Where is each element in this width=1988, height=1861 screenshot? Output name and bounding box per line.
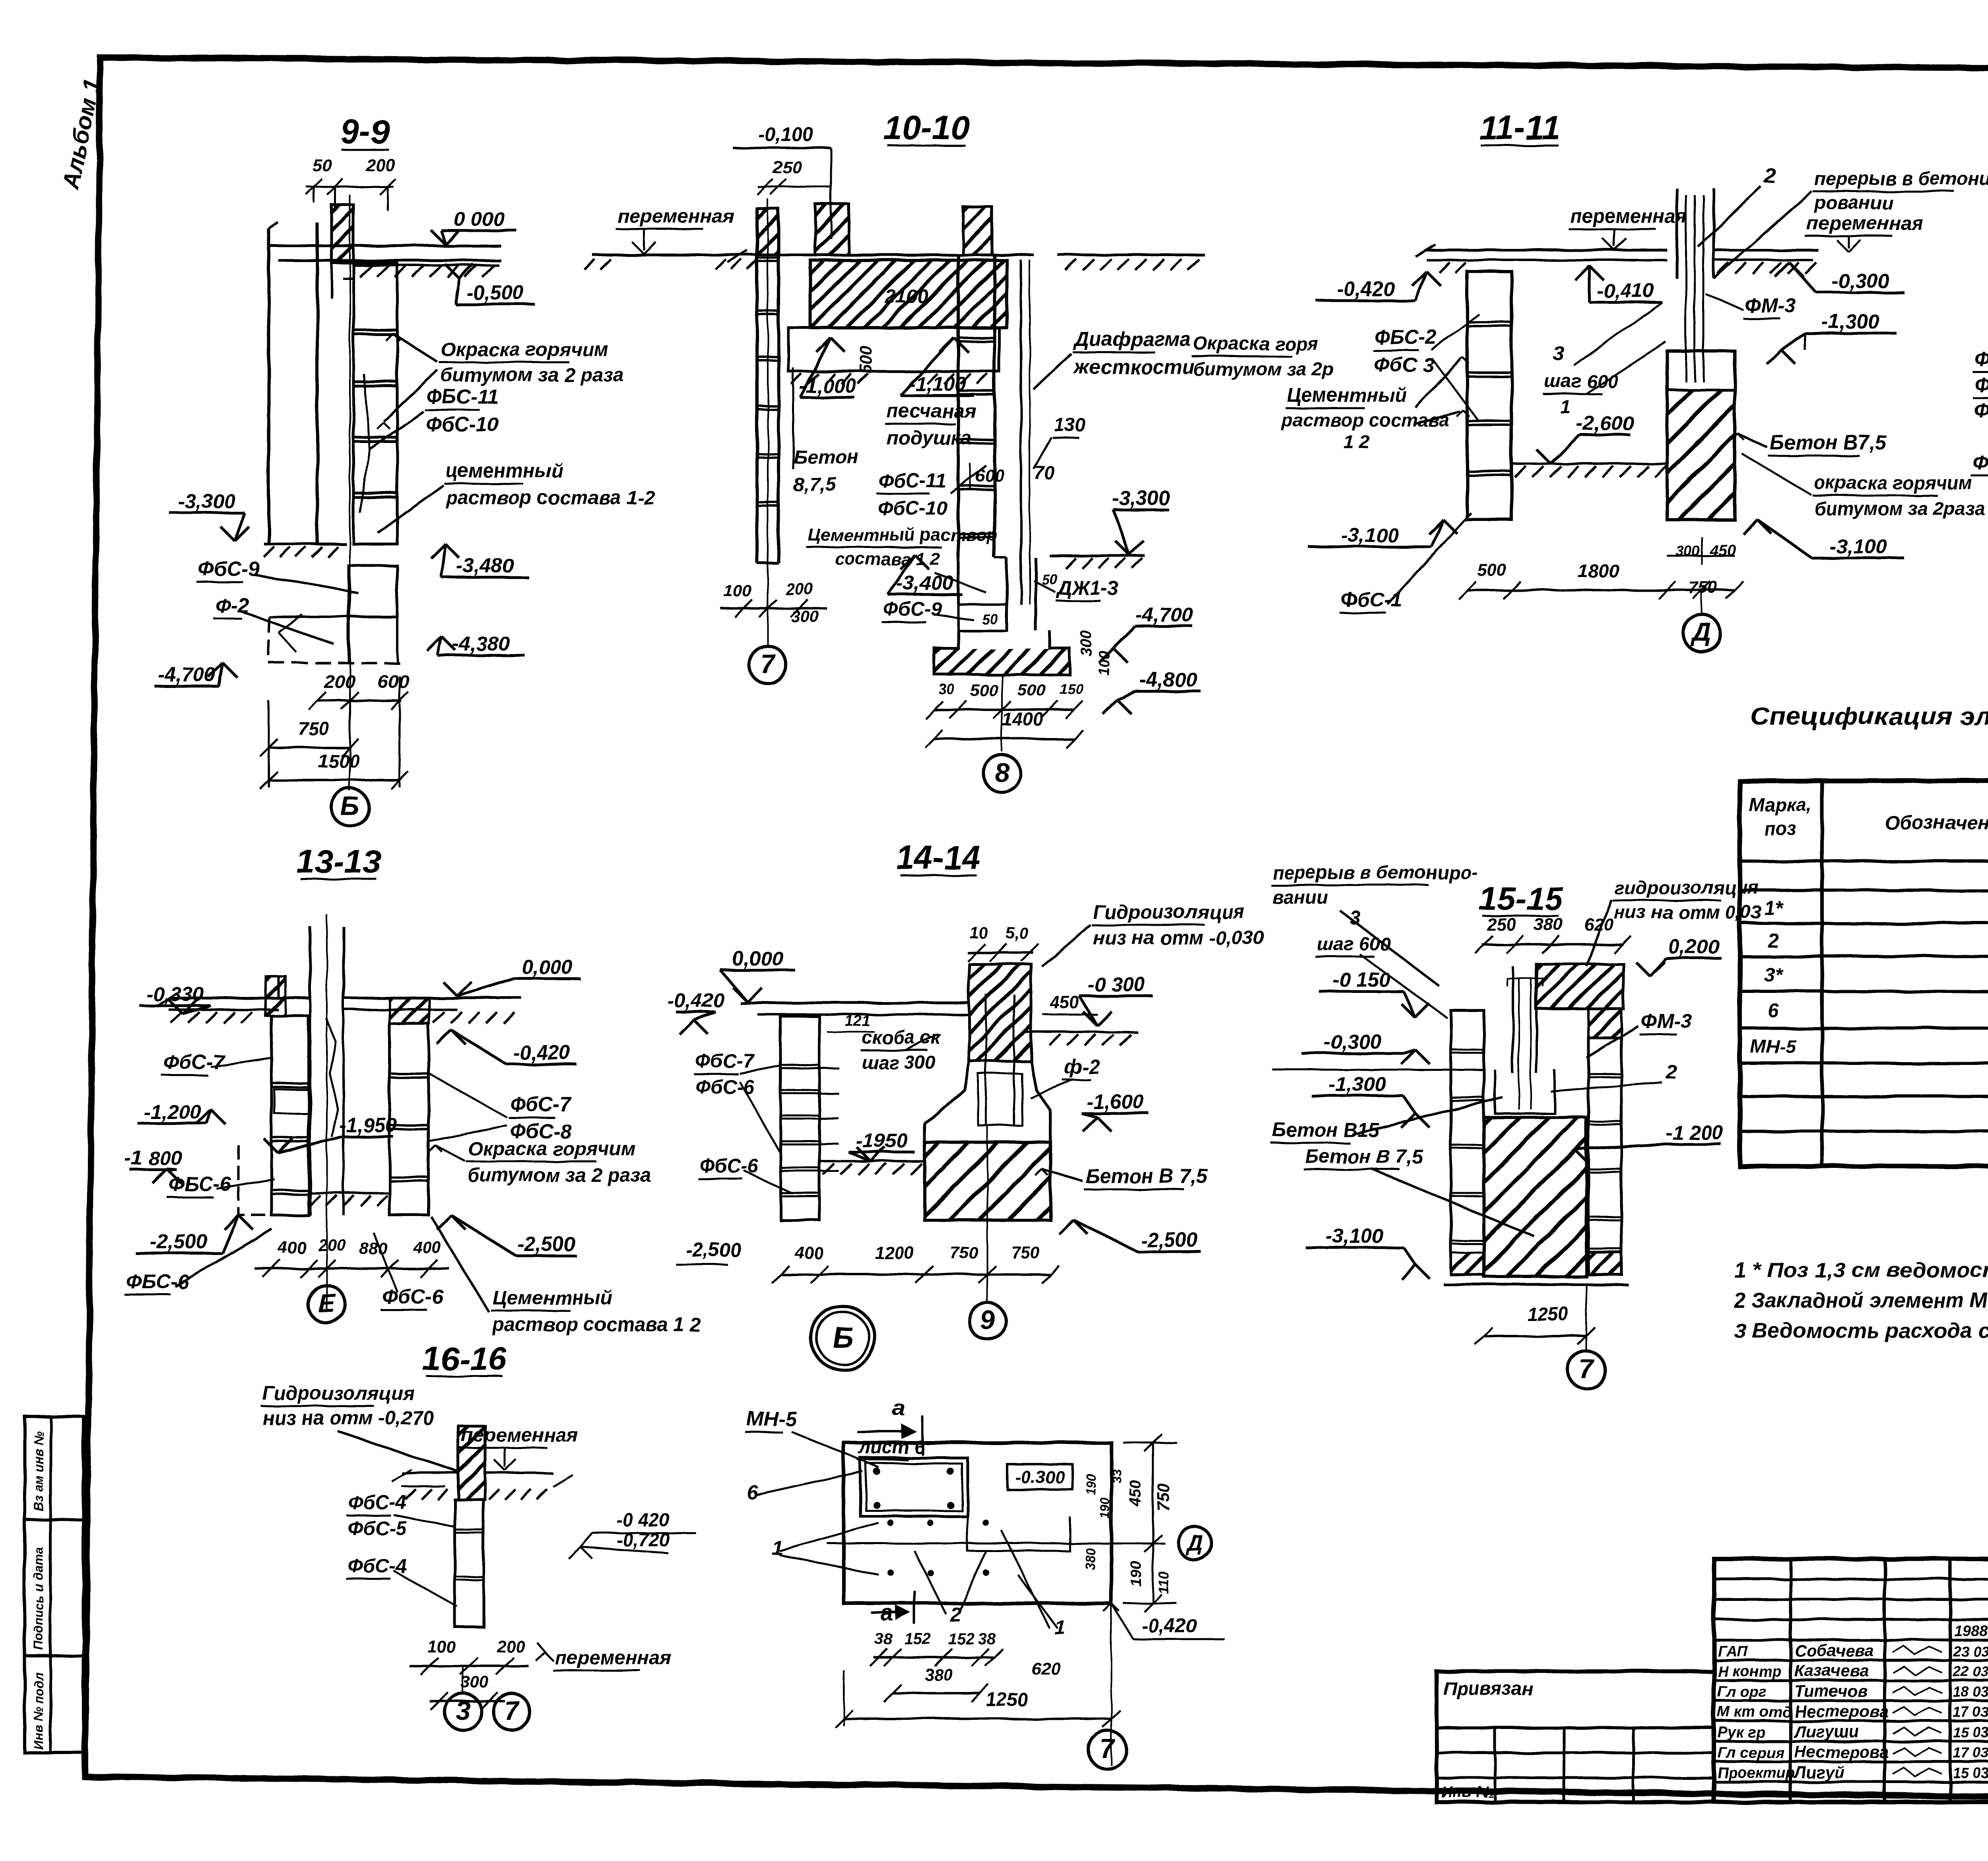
svg-text:-0,420: -0,420 [1142,1615,1197,1637]
svg-text:-0,410: -0,410 [1597,279,1654,302]
svg-text:1 * Поз 1,3 см ведомость де: 1 * Поз 1,3 см ведомость деталей на лист… [1734,1259,1988,1282]
svg-text:Цементный: Цементный [493,1287,612,1309]
svg-text:Вз ам инв №: Вз ам инв № [31,1430,46,1511]
svg-text:Е: Е [318,1288,336,1318]
svg-text:-4,800: -4,800 [1140,668,1197,691]
15-15 bottom hatch small [1451,1253,1484,1274]
11-11 footing hatched [1667,351,1735,520]
svg-text:Б: Б [833,1321,853,1354]
svg-text:перерыв в бетони-: перерыв в бетони- [1814,168,1988,189]
svg-text:500: 500 [856,346,875,374]
svg-text:-3,400: -3,400 [896,571,954,594]
svg-text:ФбС 1: ФбС 1 [1972,451,1988,474]
16-16 axis circles 3 and 7 [462,1666,464,1693]
svg-text:-4,700: -4,700 [1136,603,1193,626]
svg-text:100: 100 [724,581,751,600]
svg-text:3: 3 [456,1696,471,1725]
svg-text:11-11: 11-11 [1479,109,1561,147]
plan centerline D [827,1542,1165,1544]
9-9 hatched pilaster [332,205,353,263]
10-10 band below belt [788,328,999,371]
svg-text:-1,300: -1,300 [1822,310,1879,333]
svg-text:-0 150: -0 150 [1333,968,1390,991]
svg-text:-2,500: -2,500 [150,1230,208,1253]
svg-text:-4,380: -4,380 [452,632,510,655]
svg-text:-0,420: -0,420 [513,1041,571,1064]
11-11 ground under wall [1467,481,1667,482]
plan axis circle 7 [1088,1731,1126,1769]
svg-text:Бетон В 7,5: Бетон В 7,5 [1305,1146,1423,1167]
15-15 right wall [1588,1038,1621,1274]
svg-text:Титечов: Титечов [1794,1682,1868,1700]
15-15 bottom line [1443,1283,1628,1286]
svg-text:Проектир: Проектир [1718,1765,1795,1781]
svg-text:-2,500: -2,500 [518,1233,575,1255]
svg-text:переменная: переменная [1807,213,1923,234]
11-11 mid floor line [1512,462,1667,465]
svg-text:-2,600: -2,600 [1576,412,1634,434]
svg-text:33: 33 [1110,1469,1124,1483]
svg-text:750: 750 [950,1243,978,1262]
10-10 ground right [1050,555,1145,558]
svg-text:200: 200 [365,155,395,175]
svg-text:Гидроизоляция: Гидроизоляция [1093,901,1245,923]
svg-text:14-14: 14-14 [896,839,980,876]
svg-text:битумом за 2 раза: битумом за 2 раза [441,365,624,386]
15-15 hatched top beam [1536,964,1623,1009]
14-14 axis circle B [811,1306,875,1370]
svg-text:500: 500 [1018,681,1046,699]
svg-text:ФбС-7: ФбС-7 [510,1093,572,1116]
svg-text:8: 8 [995,758,1010,787]
svg-text:раствор состава 1 2: раствор состава 1 2 [492,1314,701,1336]
svg-text:300: 300 [1078,631,1095,656]
svg-text:9: 9 [980,1305,995,1335]
svg-text:-1,300: -1,300 [1329,1073,1386,1096]
13-13 top slab [169,997,310,1000]
svg-text:6: 6 [747,1481,758,1504]
svg-text:3 Ведомость расхода стали: 3 Ведомость расхода стали на Фм-3 см лис… [1734,1319,1988,1342]
13-13 small blocks [274,1090,309,1113]
svg-text:Гл орг: Гл орг [1718,1684,1767,1700]
spec table grid [1740,781,1988,1166]
svg-text:7: 7 [1579,1354,1595,1383]
svg-text:ФбС-3: ФбС-3 [1974,399,1988,422]
svg-text:0,000: 0,000 [732,947,783,970]
svg-text:110: 110 [1156,1572,1172,1595]
svg-text:Инв № подл: Инв № подл [31,1672,46,1750]
svg-text:380: 380 [1083,1548,1099,1571]
11-11 left wall [1467,272,1512,520]
svg-text:ФбС-7: ФбС-7 [695,1051,755,1072]
svg-text:150: 150 [1060,681,1083,697]
svg-text:-1 800: -1 800 [125,1147,182,1169]
svg-text:ДЖ1-3: ДЖ1-3 [1056,577,1118,599]
svg-text:Лигуши: Лигуши [1793,1722,1859,1741]
svg-text:30: 30 [938,681,954,697]
svg-text:ФбС-5: ФбС-5 [348,1518,407,1539]
9-9 centerline [349,195,351,791]
svg-text:500: 500 [1477,560,1507,580]
15-15 hatched top right wall [1588,1009,1621,1038]
svg-text:15 03: 15 03 [1953,1724,1988,1741]
svg-text:ФбС-10: ФбС-10 [426,413,499,436]
svg-text:гидроизоляция: гидроизоляция [1614,877,1759,898]
svg-text:низ на отм -0,030: низ на отм -0,030 [1093,927,1264,949]
svg-text:190: 190 [1128,1562,1145,1587]
svg-text:Бетон В7,5: Бетон В7,5 [1770,431,1887,454]
10-10 ground hatch mid [788,370,999,373]
svg-text:50: 50 [982,611,998,627]
svg-text:23 03: 23 03 [1953,1643,1988,1659]
svg-text:1*: 1* [1764,897,1783,919]
svg-text:Б: Б [341,791,359,821]
svg-text:-3,100: -3,100 [1341,524,1399,546]
svg-text:152: 152 [948,1630,975,1648]
14-14 left wall [780,1016,819,1220]
13-13 right wall blocks [390,1024,429,1215]
15-15 anchor plate [1495,1070,1555,1113]
svg-text:МН-5: МН-5 [1751,1036,1797,1057]
11-11 top slab [1427,249,1667,252]
svg-text:2: 2 [1767,930,1778,952]
svg-text:200: 200 [497,1637,525,1656]
svg-text:18 03: 18 03 [1953,1684,1988,1700]
svg-text:Диафрагма: Диафрагма [1073,328,1191,350]
svg-text:152: 152 [905,1630,931,1648]
svg-text:-1,600: -1,600 [1087,1090,1144,1113]
svg-text:38: 38 [875,1630,893,1648]
svg-text:-0,420: -0,420 [667,989,725,1012]
svg-text:Окраска горячим: Окраска горячим [468,1138,635,1160]
svg-text:7: 7 [761,649,777,678]
9-9 wall outline [267,229,270,544]
svg-text:-3,480: -3,480 [456,554,514,577]
svg-text:6: 6 [1768,1000,1779,1022]
svg-text:3: 3 [1553,342,1564,364]
svg-text:Казачева: Казачева [1794,1661,1869,1680]
9-9 lower blocks [349,566,397,617]
svg-text:2: 2 [1666,1061,1677,1083]
svg-text:вании: вании [1272,886,1328,907]
svg-text:раствор состава: раствор состава [1280,409,1449,430]
svg-text:ФМ-3: ФМ-3 [1745,294,1796,317]
svg-text:ФбС-4: ФбС-4 [348,1492,407,1513]
svg-text:17 03: 17 03 [1953,1704,1988,1720]
16-16 slab [402,1472,458,1474]
plan axis circle D right [1178,1527,1211,1560]
9-9 axis circle B [331,789,369,826]
svg-text:Собачева: Собачева [1794,1641,1874,1660]
svg-text:450: 450 [1049,993,1079,1012]
svg-text:ф-2: ф-2 [1064,1055,1100,1078]
15-15 left wall [1451,1010,1484,1274]
svg-text:8,7,5: 8,7,5 [793,474,837,495]
16-16 ground hatch [406,1489,416,1500]
svg-text:Нестерова: Нестерова [1794,1702,1889,1721]
9-9 wall blocks [353,263,397,544]
svg-text:Рук гр: Рук гр [1718,1724,1765,1741]
svg-text:a: a [893,1395,905,1421]
svg-text:1800: 1800 [1578,560,1619,581]
svg-text:190: 190 [1098,1498,1112,1519]
13-13 dashed lower-left block [239,1145,272,1215]
svg-text:ФБС-6: ФБС-6 [126,1270,189,1293]
14-14 column hatched [969,964,1031,1061]
svg-text:поз: поз [1764,818,1796,839]
plan inner lower rect dashed [967,1516,1070,1551]
9-9 ground hatch right [360,265,372,277]
svg-text:750: 750 [298,718,329,739]
13-13 centerline [326,915,328,1312]
plan right dims [1140,1542,1142,1544]
svg-text:0,200: 0,200 [1668,935,1719,958]
svg-text:13-13: 13-13 [297,843,381,880]
svg-text:лист 6: лист 6 [858,1436,925,1457]
svg-text:ФбС-9: ФбС-9 [883,598,942,620]
svg-text:Окраска горя: Окраска горя [1193,333,1318,354]
14-14 bell footing [924,1061,969,1123]
svg-text:ФБС-6: ФБС-6 [169,1173,231,1195]
svg-text:Д: Д [1184,1530,1203,1556]
svg-text:Нестерова: Нестерова [1794,1743,1889,1761]
14-14 right ground [1025,1031,1138,1033]
svg-text:15 03: 15 03 [1953,1765,1988,1781]
plan anchor dots [873,1468,880,1475]
svg-text:300: 300 [461,1673,489,1692]
10-10 monolithic belt hatched [810,260,1007,328]
svg-text:2: 2 [950,1603,961,1626]
svg-text:-1,200: -1,200 [144,1100,201,1123]
svg-text:шаг 300: шаг 300 [862,1052,936,1073]
svg-text:450: 450 [1127,1480,1145,1507]
svg-text:раствор состава 1-2: раствор состава 1-2 [445,487,655,509]
svg-text:Цементный: Цементный [1287,385,1407,406]
title left attachment table [1437,1671,1714,1802]
15-15 horizontal line mid [1272,1069,1484,1071]
13-13 hatched pilaster right [390,998,429,1024]
svg-text:190: 190 [1084,1474,1098,1495]
svg-text:130: 130 [1054,414,1085,435]
svg-text:ФбС-10: ФбС-10 [878,498,947,519]
svg-text:1250: 1250 [1527,1303,1569,1324]
10-10 ground hatch top [716,259,726,270]
svg-text:окраска горячим: окраска горячим [1814,472,1972,493]
svg-text:-1,950: -1,950 [340,1114,397,1136]
svg-text:ФМ-3: ФМ-3 [1641,1010,1692,1032]
svg-text:Подпись и дата: Подпись и дата [31,1547,46,1650]
11-11 axis circle D [1701,590,1703,614]
svg-text:250: 250 [772,157,802,177]
svg-text:переменная: переменная [617,206,734,227]
13-13 axis circle E [326,1269,328,1286]
svg-text:Бетон В15: Бетон В15 [1272,1119,1379,1141]
svg-text:400: 400 [278,1238,306,1257]
svg-text:-0,300: -0,300 [1324,1030,1382,1053]
svg-text:битумом за 2раза: битумом за 2раза [1814,498,1985,519]
svg-text:шаг 600: шаг 600 [1317,933,1390,954]
svg-text:38: 38 [978,1630,996,1648]
svg-text:750: 750 [1154,1483,1173,1511]
svg-text:-3,100: -3,100 [1830,535,1887,558]
svg-text:Цементный раствор: Цементный раствор [808,525,998,545]
title block signatures scribbles [1893,1646,1942,1655]
svg-text:1500: 1500 [318,750,360,771]
svg-text:380: 380 [1534,915,1563,934]
13-13 top column [309,927,312,998]
svg-text:-0.300: -0.300 [1015,1468,1065,1487]
svg-text:7: 7 [505,1696,520,1725]
svg-text:Спецификация элементов моно: Спецификация элементов монолитного фунда… [1750,703,1988,730]
svg-text:200: 200 [785,579,813,598]
svg-text:1: 1 [1561,396,1571,418]
10-10 axis circle 7 [767,596,769,646]
14-14 footing hatched [924,1142,1050,1220]
svg-text:Марка,: Марка, [1749,794,1812,815]
svg-text:ФбС-6: ФбС-6 [695,1076,754,1098]
svg-text:МН-5: МН-5 [747,1407,796,1430]
svg-text:200: 200 [324,671,355,692]
16-16 hatched column top [458,1426,485,1500]
14-14 ground mid [819,1160,924,1162]
svg-text:низ на отм -0,270: низ на отм -0,270 [262,1407,433,1429]
svg-text:-3,300: -3,300 [1112,487,1170,509]
svg-text:перерыв в бетониро-: перерыв в бетониро- [1272,862,1478,883]
10-10 footing [957,558,960,604]
svg-text:Обозначение: Обозначение [1885,812,1988,833]
svg-text:100: 100 [1096,651,1113,676]
svg-text:2 Закладной элемент МН-5 и: 2 Закладной элемент МН-5 и поз. 6 учтены… [1734,1289,1988,1312]
svg-text:ФБС-2: ФБС-2 [1374,326,1437,348]
svg-text:-1950: -1950 [856,1129,907,1152]
svg-text:жесткости: жесткости [1073,355,1194,378]
13-13 left wall blocks [272,1016,309,1215]
svg-text:М кт отд: М кт отд [1718,1704,1792,1721]
10-10 axis circle 8 [1001,674,1003,752]
svg-text:ФбС-7: ФбС-7 [163,1051,225,1073]
svg-text:500: 500 [970,681,998,699]
svg-text:750: 750 [1012,1243,1040,1262]
svg-text:-4,700: -4,700 [158,663,216,686]
svg-text:ФбС-11: ФбС-11 [878,470,946,491]
svg-text:ФБС-2: ФБС-2 [1974,373,1988,396]
svg-text:скоба ск: скоба ск [862,1027,941,1048]
title block central approval table [1714,1559,1988,1802]
plan outer rectangle [844,1443,1111,1603]
svg-text:битумом за 2р: битумом за 2р [1193,359,1334,380]
svg-text:ФБС-1: ФБС-1 [1974,348,1988,370]
svg-text:1 2: 1 2 [1344,431,1370,453]
11-11 column with rebar [1675,188,1678,278]
svg-text:7: 7 [1100,1734,1116,1763]
13-13 center precast column [309,998,311,1215]
svg-text:ФБС-11: ФБС-11 [426,385,499,408]
15-15 axis circle 7 [1586,1284,1587,1351]
svg-text:ФбС-9: ФбС-9 [198,558,260,580]
plan level box -0.300 [1008,1465,1073,1490]
svg-text:1250: 1250 [986,1689,1028,1710]
svg-text:-1 200: -1 200 [1666,1121,1724,1144]
svg-text:-2,500: -2,500 [1140,1228,1198,1251]
10-10 right wall [957,255,960,558]
plan dots and leaders [887,1520,894,1526]
svg-text:250: 250 [1487,915,1516,934]
14-14 axis circle 9 [986,1284,988,1302]
svg-text:-3,300: -3,300 [178,490,236,513]
14-14 anchor bolts dashed [985,994,987,1125]
svg-text:9-9: 9-9 [341,113,390,151]
svg-text:цементный: цементный [446,460,563,482]
14-14 top slab [740,1002,969,1004]
9-9 ground line left [264,543,346,546]
svg-text:Инв №: Инв № [1441,1783,1495,1801]
9-9 floor slab [269,245,501,247]
svg-text:300: 300 [791,607,819,626]
svg-text:10: 10 [970,925,988,942]
svg-text:620: 620 [1032,1659,1061,1679]
10-10 top slab lines [740,254,815,256]
9-9 recess lines [330,263,333,298]
svg-text:-0 300: -0 300 [1088,973,1145,996]
svg-text:17 03: 17 03 [1953,1744,1988,1761]
svg-text:16-16: 16-16 [422,1340,507,1377]
svg-text:ФбС 3: ФбС 3 [1374,354,1434,376]
svg-text:600: 600 [975,466,1004,485]
svg-text:10-10: 10-10 [883,109,969,147]
svg-text:низ на отм 0,03: низ на отм 0,03 [1614,901,1761,923]
13-13 ground mid [309,1192,390,1194]
svg-text:битумом за 2 раза: битумом за 2 раза [468,1165,651,1186]
svg-text:380: 380 [924,1665,952,1684]
svg-text:Бетон: Бетон [793,446,858,468]
svg-text:Привязан: Привязан [1443,1678,1533,1699]
svg-text:0,000: 0,000 [522,956,573,978]
svg-text:Гидроизоляция: Гидроизоляция [262,1383,414,1404]
svg-text:-2,500: -2,500 [686,1239,741,1261]
svg-text:переменная: переменная [555,1647,671,1669]
svg-text:3: 3 [1350,907,1361,929]
svg-text:400: 400 [413,1238,441,1257]
svg-text:50: 50 [312,155,332,175]
svg-text:1988: 1988 [1954,1623,1988,1640]
15-15 big hatched block [1484,1117,1586,1276]
16-16 lower column blocks [455,1500,483,1627]
svg-text:400: 400 [795,1243,823,1262]
15-15 column anchor bolts [1512,966,1514,1074]
svg-text:переменная: переменная [1570,206,1687,227]
svg-text:-0,300: -0,300 [1832,270,1889,292]
svg-text:100: 100 [427,1637,455,1656]
svg-text:1400: 1400 [1002,709,1044,730]
svg-text:ФбС-6: ФбС-6 [382,1285,443,1308]
11-11 ground hatch [1439,262,1450,273]
svg-text:-0 420: -0 420 [616,1509,669,1530]
13-13 ground hatch [171,1012,182,1023]
svg-text:Н контр: Н контр [1718,1663,1781,1680]
svg-text:600: 600 [378,671,409,692]
10-10 top pilasters hatched [815,204,849,255]
9-9 footing F-2 dashed [269,617,400,663]
svg-text:22 03: 22 03 [1953,1663,1988,1680]
svg-text:Бетон В 7,5: Бетон В 7,5 [1085,1165,1208,1187]
10-10 diaphragm dashed [1020,260,1022,604]
left stamp column [25,1416,83,1753]
svg-text:Окраска горячим: Окраска горячим [441,339,608,360]
svg-text:ровании: ровании [1813,192,1893,213]
svg-text:1200: 1200 [875,1243,914,1263]
svg-text:620: 620 [1584,915,1614,934]
11-11 rebar into footing [1685,351,1687,382]
